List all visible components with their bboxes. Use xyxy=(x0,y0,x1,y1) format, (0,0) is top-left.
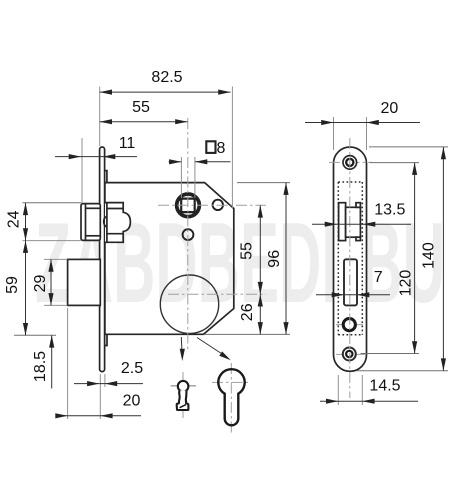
ext line 14.5 left xyxy=(337,375,339,405)
extension line faceplate back down xyxy=(104,374,106,387)
extension line case bottom left xyxy=(14,334,56,336)
ext line 120 top xyxy=(370,162,419,164)
ext line plate right top xyxy=(366,117,368,150)
svg-text:7: 7 xyxy=(374,269,383,286)
svg-text:140: 140 xyxy=(420,242,437,269)
svg-text:13.5: 13.5 xyxy=(374,202,405,219)
faceplate vertical centerline xyxy=(349,138,351,398)
svg-text:18.5: 18.5 xyxy=(32,351,49,382)
screw hole B xyxy=(183,229,194,240)
extension line sq hole left xyxy=(180,157,182,198)
svg-text:14.5: 14.5 xyxy=(369,377,400,394)
leader to euro profile xyxy=(197,338,228,358)
spindle hub ring xyxy=(177,194,200,217)
svg-text:82.5: 82.5 xyxy=(151,69,182,86)
svg-text:120: 120 xyxy=(398,270,415,297)
svg-text:59: 59 xyxy=(4,276,21,294)
strike faceplate outline xyxy=(334,147,367,371)
latch bolt front view xyxy=(339,203,346,241)
extension line sq hole right xyxy=(194,157,196,198)
svg-text:96: 96 xyxy=(266,250,283,268)
euro profile centerlines xyxy=(230,363,232,433)
dimension 18.5 xyxy=(51,335,53,388)
dimension 14.5 xyxy=(320,400,418,402)
screw hole A xyxy=(213,200,223,210)
ext line 120 bottom xyxy=(361,353,420,355)
middle screw hole xyxy=(343,319,355,331)
middle screw centerline xyxy=(336,324,363,326)
hidden case edges (dotted) xyxy=(338,182,362,335)
dimension 140 xyxy=(442,147,444,371)
dimension 96 xyxy=(285,183,287,335)
ext line 14.5 right xyxy=(361,375,363,405)
dimension 2.5 xyxy=(74,383,143,385)
dimension 7 xyxy=(316,294,390,296)
dimension 13.5 xyxy=(312,223,411,225)
deadbolt xyxy=(68,259,101,305)
extension line case bottom right xyxy=(205,333,290,335)
dimension 59 xyxy=(25,241,27,336)
bottom screw hole xyxy=(343,348,356,361)
dimension 120 xyxy=(414,163,416,354)
dimension 20 deadbolt throw xyxy=(56,415,141,417)
svg-text:20: 20 xyxy=(123,392,141,409)
svg-text:29: 29 xyxy=(32,275,49,293)
ext line 140 bottom xyxy=(357,370,448,372)
leader to key profile xyxy=(180,337,183,357)
dimension 55 vertical xyxy=(259,205,261,294)
latch bolt head xyxy=(81,204,100,241)
ext line 140 top xyxy=(369,146,448,148)
extension line faceplate front down xyxy=(99,374,101,419)
dimension 11 xyxy=(55,156,137,158)
key profile centerlines xyxy=(171,385,196,387)
fixing tab below case xyxy=(105,334,107,345)
extension line faceplate top xyxy=(99,87,101,147)
extension line latch top xyxy=(23,202,82,204)
bottom screw centerline xyxy=(336,353,366,355)
dimension 24 xyxy=(25,203,27,241)
square spindle hole 8mm xyxy=(181,199,195,213)
top screw centerline xyxy=(329,161,372,163)
extension line deadbolt bottom xyxy=(44,304,67,306)
dimension square 8 xyxy=(169,161,182,163)
dimension 26 xyxy=(259,294,261,334)
vertical centerline through hub and cylinder xyxy=(187,118,189,352)
svg-text:20: 20 xyxy=(381,100,399,117)
svg-text:55: 55 xyxy=(239,242,256,260)
dimension 20 plate width xyxy=(305,122,420,124)
dimension 55 horizontal xyxy=(100,121,188,123)
horizontal centerline cylinder axis xyxy=(168,293,266,295)
fixing tab above case xyxy=(105,171,107,183)
svg-text:55: 55 xyxy=(132,99,150,116)
top screw hole xyxy=(343,156,357,170)
svg-text:11: 11 xyxy=(119,135,136,152)
extension line case top right xyxy=(237,182,290,184)
extension line case right top xyxy=(231,87,233,209)
dimension 29 xyxy=(50,259,52,305)
faceplate (side view) xyxy=(100,147,105,372)
svg-text:2.5: 2.5 xyxy=(121,360,143,377)
dimension 82.5 xyxy=(100,91,231,93)
latch follower cam xyxy=(105,203,130,243)
extension line deadbolt top xyxy=(44,258,67,260)
horizontal centerline through hub xyxy=(158,204,266,206)
svg-text:26: 26 xyxy=(239,303,256,321)
ext line plate left top xyxy=(333,117,335,150)
svg-text:24: 24 xyxy=(6,210,23,228)
lock case outline xyxy=(105,183,234,335)
extension line deadbolt tip down xyxy=(67,308,69,419)
svg-text:8: 8 xyxy=(217,140,226,157)
extension line latch tip xyxy=(81,138,83,203)
key profile xyxy=(178,381,189,392)
extension line latch bottom xyxy=(23,240,82,242)
cylinder hole circle xyxy=(160,275,218,333)
euro cylinder profile xyxy=(218,369,244,425)
deadbolt slot xyxy=(344,259,357,305)
